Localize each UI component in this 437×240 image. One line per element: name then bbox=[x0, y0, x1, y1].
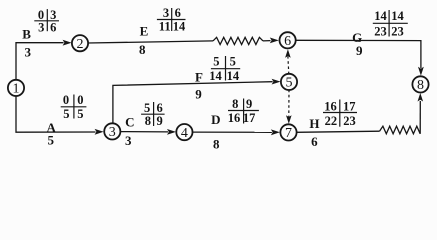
svg-text:B: B bbox=[22, 27, 31, 42]
wire E: zigzag to node 6 bbox=[263, 40, 271, 42]
wire E: node 2 to zigzag bbox=[88, 41, 213, 43]
node 2 bbox=[72, 35, 88, 51]
fraction table C cross lines bbox=[141, 113, 165, 115]
svg-text:5: 5 bbox=[77, 107, 83, 121]
svg-text:7: 7 bbox=[285, 126, 292, 141]
wire D: node 4 to node 7 bbox=[192, 131, 272, 133]
svg-text:14: 14 bbox=[173, 20, 186, 34]
svg-text:5: 5 bbox=[63, 107, 69, 121]
svg-text:9: 9 bbox=[356, 43, 363, 58]
svg-text:6: 6 bbox=[284, 34, 291, 49]
svg-text:2: 2 bbox=[77, 37, 84, 52]
arrowhead into node 2 bbox=[63, 40, 72, 46]
node 3 bbox=[104, 123, 120, 139]
arrowhead into node 7 (dummy, down) bbox=[286, 115, 292, 124]
node 8 bbox=[412, 76, 428, 92]
svg-text:16: 16 bbox=[228, 111, 241, 125]
svg-text:6: 6 bbox=[311, 134, 318, 149]
svg-text:E: E bbox=[140, 24, 149, 39]
svg-text:23: 23 bbox=[391, 24, 404, 38]
fraction table A cross lines bbox=[61, 106, 87, 108]
node 6 bbox=[280, 32, 296, 48]
svg-text:5: 5 bbox=[213, 54, 219, 68]
svg-text:8: 8 bbox=[213, 136, 220, 151]
dummy arrow wire node 5 to node 7 (dashed) bbox=[288, 90, 290, 117]
svg-text:9: 9 bbox=[195, 87, 202, 102]
svg-text:8: 8 bbox=[417, 78, 424, 93]
arrowhead into node 4 (from C) bbox=[167, 129, 176, 135]
svg-text:5: 5 bbox=[230, 54, 236, 68]
svg-text:22: 22 bbox=[325, 114, 338, 128]
wire G: node 6 right then down to node 8 bbox=[295, 40, 421, 68]
fraction table D cross lines bbox=[228, 110, 259, 112]
svg-text:5: 5 bbox=[47, 133, 54, 148]
svg-text:6: 6 bbox=[175, 6, 181, 20]
svg-text:8: 8 bbox=[145, 114, 151, 128]
arrowhead into node 3 (from A) bbox=[95, 129, 104, 135]
arrowhead into node 6 (dummy, up) bbox=[285, 49, 291, 58]
svg-text:1: 1 bbox=[13, 82, 20, 97]
node 5 bbox=[281, 74, 297, 90]
node 7 bbox=[280, 124, 296, 140]
wire F: node 3 up then right to node 5 bbox=[113, 82, 273, 124]
wire A: node 1 down and right to node 3 bbox=[16, 96, 96, 133]
zigzag on H before node 8 bbox=[380, 126, 421, 134]
fraction table F cross lines bbox=[211, 68, 240, 70]
wire H: riser up to node 8 bbox=[419, 101, 421, 134]
svg-text:3: 3 bbox=[163, 6, 169, 20]
svg-text:C: C bbox=[125, 114, 134, 129]
svg-text:0: 0 bbox=[77, 93, 83, 107]
svg-text:14: 14 bbox=[374, 9, 387, 23]
svg-text:6: 6 bbox=[50, 21, 56, 35]
svg-text:23: 23 bbox=[343, 114, 356, 128]
arrowhead into node 6 (from E) bbox=[270, 38, 279, 44]
arrowhead into node 8 bottom (from H) bbox=[418, 93, 424, 102]
svg-text:9: 9 bbox=[246, 97, 252, 111]
arrowhead into node 8 top (from G) bbox=[418, 67, 424, 76]
svg-text:F: F bbox=[195, 70, 203, 85]
svg-text:5: 5 bbox=[144, 101, 150, 115]
fraction table E cross lines bbox=[157, 19, 186, 21]
fraction table H cross lines bbox=[323, 112, 357, 114]
svg-text:8: 8 bbox=[232, 97, 238, 111]
arrowhead into node 5 (from F) bbox=[272, 79, 281, 85]
svg-text:3: 3 bbox=[38, 21, 44, 35]
dummy arrow wire node 5 to node 6 (dashed) bbox=[287, 57, 290, 75]
arrowhead into node 7 (from D) bbox=[271, 129, 280, 135]
svg-text:0: 0 bbox=[63, 93, 69, 107]
svg-text:4: 4 bbox=[181, 126, 188, 141]
svg-text:3: 3 bbox=[109, 125, 116, 140]
svg-text:5: 5 bbox=[286, 76, 293, 91]
svg-text:3: 3 bbox=[125, 133, 132, 148]
svg-text:11: 11 bbox=[159, 20, 171, 34]
svg-text:6: 6 bbox=[156, 101, 162, 115]
svg-text:H: H bbox=[309, 116, 319, 131]
svg-text:8: 8 bbox=[139, 42, 146, 57]
node 4 bbox=[176, 124, 192, 140]
fraction table B cross lines bbox=[34, 20, 59, 22]
svg-text:23: 23 bbox=[374, 24, 387, 38]
svg-text:D: D bbox=[211, 112, 220, 127]
svg-text:3: 3 bbox=[24, 44, 31, 59]
svg-text:17: 17 bbox=[343, 99, 356, 113]
svg-text:14: 14 bbox=[227, 69, 240, 83]
node 1 bbox=[8, 80, 24, 96]
wire C: node 3 to node 4 bbox=[120, 131, 168, 133]
svg-text:14: 14 bbox=[391, 9, 404, 23]
wire H: node 7 right to zigzag bbox=[296, 131, 379, 132]
svg-text:9: 9 bbox=[156, 114, 162, 128]
fraction table G cross lines bbox=[373, 22, 408, 24]
svg-text:14: 14 bbox=[209, 69, 222, 83]
wire B: node 1 up and right to node 2 bbox=[16, 43, 64, 80]
svg-text:17: 17 bbox=[243, 111, 256, 125]
zigzag on E before node 6 bbox=[213, 37, 263, 44]
svg-text:16: 16 bbox=[324, 99, 337, 113]
